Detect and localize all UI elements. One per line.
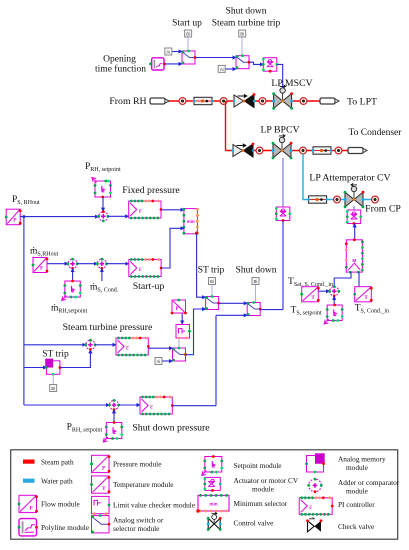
tag B ST trip input (50, 385, 57, 392)
wire S2 to MSCV actuator (249, 62, 263, 64)
svg-text:LP BPCV: LP BPCV (260, 125, 299, 136)
svg-text:To LPT: To LPT (347, 97, 377, 108)
svg-text:From RH: From RH (109, 96, 146, 107)
svg-text:Steam turbine trip: Steam turbine trip (212, 19, 281, 29)
wire PI shutdown output (172, 405, 216, 407)
svg-text:module: module (346, 463, 368, 472)
wire pressure module to limit checker (181, 314, 183, 325)
analog memory module ST trip (45, 359, 61, 376)
wire setpoint m_RH to adder (72, 269, 74, 281)
svg-text:Bi: Bi (210, 279, 214, 284)
legend setpoint module icon (202, 455, 223, 475)
svg-text:min: min (209, 502, 217, 507)
setpoint module P_RH,setpoint 2 (103, 421, 123, 442)
check valve bypass (232, 143, 255, 157)
tag A1 analog input (165, 48, 172, 55)
legend temperature module icon (90, 476, 110, 493)
check valve main steam (233, 93, 256, 107)
adder/comparator start-up 2 (96, 258, 108, 270)
svg-text:Minimum selector: Minimum selector (234, 499, 288, 508)
temperature module T_Sat (300, 287, 319, 302)
svg-text:time function: time function (95, 64, 146, 75)
wire T_Sat to adder (318, 290, 329, 292)
wire m_S,Cond input to adder (101, 269, 103, 281)
svg-text:Water path: Water path (41, 476, 73, 485)
analog switch shut down (247, 301, 262, 316)
svg-text:min: min (187, 219, 195, 224)
svg-text:Ai: Ai (220, 67, 224, 72)
polyline module: opening time function (149, 58, 166, 70)
minimum selector module (183, 208, 199, 235)
svg-text:ε: ε (126, 342, 129, 351)
pipe point (300, 98, 307, 105)
svg-text:Polyline module: Polyline module (41, 523, 89, 532)
wire bus to adder shutdown pressure (24, 404, 110, 406)
wire B2 to switch S2 (241, 37, 243, 55)
legend check valve icon (306, 517, 322, 531)
svg-text:Bi: Bi (254, 279, 258, 284)
setpoint module T_S,setpoint (324, 304, 343, 324)
wire A1 to switch S1 (172, 51, 182, 53)
legend water path swatch (23, 479, 35, 483)
wire shutdown pressure to switch (216, 314, 247, 316)
wire PI stp to switch (148, 347, 172, 349)
setpoint module P_RH,setpoint (92, 178, 112, 199)
pipe outlet To Condenser (348, 148, 367, 154)
wire setpoint to adder shutdown (113, 410, 115, 422)
pipe inlet From RH (150, 98, 169, 104)
wire LP BPCV valve stem to actuator (282, 158, 284, 207)
svg-text:Control valve: Control valve (234, 518, 274, 527)
legend pressure module icon (90, 455, 110, 472)
PI controller steam turbine pressure (116, 337, 150, 357)
steam path From RH to To LPT (168, 100, 320, 102)
svg-text:T: T (311, 295, 315, 301)
setpoint module m_RH,setpoint (62, 280, 82, 301)
wire adder to adder (77, 263, 97, 265)
analog switch steam turbine pressure (172, 347, 187, 362)
water path from CP to attemperator (303, 154, 375, 200)
svg-text:ST trip: ST trip (198, 266, 225, 276)
adder/comparator fixed pressure (97, 210, 109, 222)
flow module m_S,RHout (32, 258, 49, 273)
legend limit value checker icon (92, 496, 111, 515)
svg-text:Temperature module: Temperature module (113, 480, 173, 489)
tag B2 shut-down binary input (239, 30, 246, 37)
wire trip switch to shutdown switch (219, 302, 248, 304)
wire B tag to trip switch (211, 285, 213, 297)
svg-text:Shut down: Shut down (226, 7, 267, 17)
legend adder icon (307, 478, 322, 493)
wire bus to adder steam turbine pressure (24, 344, 86, 346)
adder/comparator start-up 1 (67, 258, 79, 270)
svg-text:Ai: Ai (157, 359, 161, 364)
pipe point (372, 196, 379, 203)
legend flow module icon (18, 495, 38, 512)
pipe point (334, 196, 341, 203)
control valve LP Attemperator CV (344, 183, 365, 208)
pipe point (335, 147, 342, 154)
PI controller shutdown pressure (140, 396, 174, 416)
wire adder to PI stp (95, 344, 116, 346)
PI controller fixed pressure (129, 200, 163, 220)
svg-text:Check valve: Check valve (338, 522, 374, 531)
tag B shut down (252, 278, 259, 285)
pipe point (256, 147, 263, 154)
temperature module T_S_Cond_in (353, 287, 372, 302)
pipe flow measurement attemperator (307, 196, 327, 203)
pipe point (300, 147, 307, 154)
wire adder to PI start-up (107, 263, 129, 265)
svg-text:ε: ε (309, 502, 312, 511)
wire limit checker to switch stp (178, 338, 180, 348)
adder/comparator steam turbine pressure (84, 339, 96, 351)
wire adder to PI fixed pressure (108, 215, 129, 217)
analog switch S2 (shut down) (236, 54, 251, 69)
limit value checker module (176, 325, 191, 340)
wire PI fixed pressure to minimum selector (161, 209, 184, 211)
control valve LP BPCV (272, 134, 293, 159)
legend polyline module icon (18, 519, 38, 536)
pipe point (259, 98, 266, 105)
svg-text:Steam turbine pressure: Steam turbine pressure (63, 322, 153, 333)
maximum selector module (345, 238, 364, 273)
wire flow module to adder (47, 263, 68, 265)
svg-text:Ai: Ai (166, 49, 170, 54)
legend steam path swatch (23, 460, 35, 464)
svg-text:Setpoint module: Setpoint module (234, 461, 282, 470)
svg-text:Bi: Bi (51, 386, 55, 391)
svg-text:LP Attemperator CV: LP Attemperator CV (309, 173, 390, 184)
svg-text:Pressure module: Pressure module (113, 460, 161, 469)
wire A tag to switch (162, 360, 173, 362)
tag B1 start-up binary input (185, 30, 192, 37)
svg-text:ε: ε (150, 401, 153, 410)
pressure module steam turbine (171, 299, 187, 315)
tag B ST trip (209, 278, 216, 285)
svg-text:Bi: Bi (186, 31, 190, 36)
svg-text:Limit value checker module: Limit value checker module (113, 501, 195, 510)
PI controller start-up (129, 258, 163, 278)
wire S1 to S2 (195, 57, 236, 59)
svg-text:Steam path: Steam path (41, 457, 74, 466)
legend minimum selector icon (196, 494, 229, 513)
tag A2 analog input (218, 65, 225, 72)
wire memory to B tag (52, 374, 54, 384)
pipe flow measurement (193, 97, 213, 104)
control valve LP MSCV (272, 85, 293, 110)
svg-text:Opening: Opening (103, 55, 136, 65)
pipe point (179, 98, 186, 105)
wire polyline to switch S1 (165, 63, 183, 65)
adder/comparator temperature (328, 285, 340, 297)
wire shutdown switch output (260, 309, 283, 311)
legend analog switch icon (91, 514, 110, 533)
wire adder to maximum selector (334, 272, 351, 285)
wire setpoint to adder fixed pressure (102, 198, 104, 212)
analog switch ST trip (205, 295, 220, 310)
wire left vertical bus (23, 217, 25, 405)
wire attemperator valve stem (353, 206, 355, 210)
wire shut-down switch to BPCV actuator (282, 221, 284, 310)
svg-text:Bi: Bi (240, 31, 244, 36)
svg-text:ε: ε (139, 205, 142, 214)
wire vertical shutdown pressure riser (215, 315, 217, 405)
actuator module BPCV (275, 207, 291, 222)
actuator module MSCV (262, 58, 278, 73)
wire actuator to LP MSCV valve (277, 64, 283, 88)
tag A analog input stp (155, 358, 162, 365)
svg-text:Shut down pressure: Shut down pressure (132, 423, 210, 434)
wire pressure module to adder (20, 216, 98, 218)
svg-text:ST trip: ST trip (42, 350, 69, 360)
svg-text:Start up: Start up (172, 19, 202, 29)
actuator module attemperator CV (346, 210, 362, 225)
wire B tag to shutdown switch (255, 285, 257, 303)
wire minimum selector to trip switch (197, 234, 206, 297)
wire switch stp to trip switch (186, 309, 206, 355)
svg-text:Fixed pressure: Fixed pressure (122, 185, 180, 196)
svg-text:Shut down: Shut down (236, 266, 277, 276)
legend control valve icon (207, 512, 222, 531)
svg-text:LP MSCV: LP MSCV (271, 78, 312, 89)
svg-text:P: P (176, 307, 179, 312)
legend PI controller icon (299, 496, 333, 515)
pipe flow measurement bypass (312, 147, 332, 154)
svg-text:module: module (346, 486, 368, 495)
pipe point / junction (220, 98, 227, 105)
svg-text:To Condenser: To Condenser (349, 128, 403, 138)
svg-text:T: T (102, 486, 106, 492)
pipe outlet To LPT (320, 98, 339, 104)
wire adder to PI shutdown (119, 404, 140, 406)
wire maximum selector to attemperator actuator (354, 224, 356, 240)
svg-text:module: module (252, 484, 274, 493)
wire T condenser to maximum selector (358, 272, 360, 286)
wire memory to adder (60, 350, 91, 368)
svg-text:selector module: selector module (113, 524, 159, 533)
junction node left bus (22, 215, 25, 218)
analog switch S1 (start up) (182, 50, 197, 65)
pressure module P_S,RHout (5, 209, 22, 225)
wire bus to memory module (24, 367, 47, 369)
wire PI start-up to minimum selector (161, 228, 184, 268)
svg-text:M: M (352, 258, 356, 263)
svg-text:From CP: From CP (365, 204, 401, 215)
svg-text:Start-up: Start-up (133, 281, 165, 292)
adder/comparator shutdown pressure (108, 399, 120, 411)
steam path branch to LP BPCV (225, 101, 227, 151)
svg-text:PI controller: PI controller (338, 500, 375, 509)
svg-text:ε: ε (139, 264, 142, 273)
legend actuator module icon (203, 477, 221, 491)
legend analog memory icon (305, 453, 325, 473)
svg-text:T: T (364, 295, 368, 301)
legend frame (11, 450, 398, 539)
wire B1 to switch S1 (187, 37, 189, 51)
wire setpoint to adder (333, 296, 335, 304)
steam path bypass to condenser (226, 150, 349, 152)
wire A2 to switch S2 (225, 68, 236, 70)
svg-text:Flow module: Flow module (41, 499, 80, 508)
